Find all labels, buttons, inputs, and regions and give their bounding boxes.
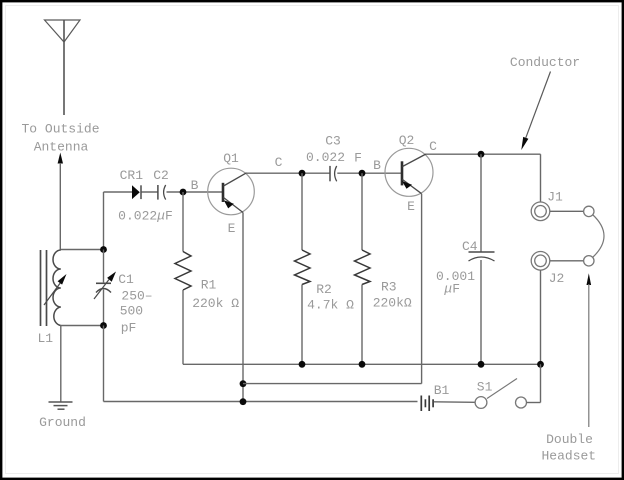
wire C4 column lower <box>480 260 482 364</box>
svg-text:4.7k Ω: 4.7k Ω <box>307 297 354 312</box>
capacitor C3 <box>330 166 337 181</box>
wire R3 column upper <box>361 173 363 250</box>
svg-text:C1: C1 <box>118 272 134 287</box>
svg-text:Double: Double <box>546 432 593 447</box>
wire R2 column upper <box>301 173 303 250</box>
wire tank top rail <box>60 249 103 251</box>
transistor Q2 <box>385 148 433 196</box>
svg-text:250–: 250– <box>121 289 152 304</box>
node R2 bottom <box>299 361 306 368</box>
svg-text:F: F <box>354 150 362 165</box>
wire R1 column lower <box>182 290 184 364</box>
wire J column lower <box>540 270 542 364</box>
svg-text:CR1: CR1 <box>120 168 144 183</box>
wire C4 column upper <box>480 154 482 252</box>
svg-text:0.022μF: 0.022μF <box>118 208 173 223</box>
resistor R3 <box>355 250 371 285</box>
wire R2 column lower <box>301 285 303 365</box>
svg-text:To Outside: To Outside <box>21 121 99 136</box>
diode CR1 <box>132 185 141 199</box>
battery B1 <box>421 396 433 412</box>
wire battery to switch <box>434 401 475 404</box>
svg-text:S1: S1 <box>477 379 493 394</box>
wire collector row Q2 <box>426 153 541 155</box>
jack J2 <box>531 251 550 270</box>
wire C1 lower stub <box>103 290 105 326</box>
label Double Headset <box>541 432 596 463</box>
headset cord arc <box>593 215 605 258</box>
resistor R1 <box>175 252 191 291</box>
node rail1 right end <box>537 361 544 368</box>
ground <box>49 402 73 409</box>
svg-text:pF: pF <box>121 321 137 336</box>
label To Outside Antenna <box>21 121 99 154</box>
wire rail1 <box>183 363 541 365</box>
wire J column upper <box>540 154 542 202</box>
J2 plug circle <box>584 256 594 266</box>
svg-text:500: 500 <box>120 304 143 319</box>
wire tank bottom rail <box>61 325 104 327</box>
svg-text:Conductor: Conductor <box>510 55 580 70</box>
svg-text:E: E <box>228 221 236 236</box>
wire Q2 emitter column <box>421 194 423 384</box>
wire C1 upper stub <box>103 250 105 284</box>
node C4 top <box>478 151 485 158</box>
jack J1 <box>531 202 550 221</box>
J1 plug circle <box>584 206 594 216</box>
svg-text:C4: C4 <box>462 239 478 254</box>
svg-text:0.022: 0.022 <box>306 150 345 165</box>
svg-text:R3: R3 <box>381 279 397 294</box>
svg-text:Ground: Ground <box>39 415 86 430</box>
capacitor C4 <box>469 252 495 261</box>
node R2 top <box>299 170 306 177</box>
headset arrow <box>587 273 592 427</box>
svg-text:C3: C3 <box>325 133 341 148</box>
wire R1 column upper <box>182 192 184 252</box>
node F <box>359 170 366 177</box>
node bottom of tank <box>100 322 107 329</box>
wire J2 link <box>550 260 584 262</box>
svg-text:Q1: Q1 <box>223 151 239 166</box>
wire diode row left <box>104 191 133 193</box>
svg-text:Headset: Headset <box>541 449 596 464</box>
svg-text:R2: R2 <box>316 282 332 297</box>
svg-text:B1: B1 <box>434 383 450 398</box>
svg-text:E: E <box>407 199 415 214</box>
svg-text:Antenna: Antenna <box>34 139 89 154</box>
antenna <box>45 20 81 115</box>
inductor L1 <box>41 250 67 326</box>
node bottom rail junction <box>240 398 247 405</box>
svg-text:220kΩ: 220kΩ <box>373 296 412 311</box>
svg-text:B: B <box>191 178 199 193</box>
svg-text:Q2: Q2 <box>399 133 415 148</box>
capacitor C2 <box>158 185 166 200</box>
wire C2 to Q1 base <box>167 191 223 193</box>
svg-text:C: C <box>275 155 283 170</box>
svg-text:B: B <box>373 158 381 173</box>
conductor arrow <box>521 72 550 151</box>
svg-text:220k Ω: 220k Ω <box>192 296 239 311</box>
resistor R2 <box>295 250 311 285</box>
wire switch to right column <box>527 364 541 402</box>
node emitter rail junction <box>240 380 247 387</box>
svg-text:C2: C2 <box>153 168 169 183</box>
svg-text:L1: L1 <box>37 331 53 346</box>
wire C1 column to diode row <box>103 192 105 250</box>
svg-text:C: C <box>429 139 437 154</box>
svg-text:μF: μF <box>443 281 460 296</box>
capacitor C1 (variable) <box>94 272 116 300</box>
wire C3 to Q2 base <box>337 172 401 174</box>
transistor Q1 <box>208 168 255 215</box>
node C4 bottom <box>478 361 485 368</box>
switch S1 <box>475 379 526 409</box>
wire J1 link <box>550 210 584 212</box>
wire ground lead <box>60 326 62 402</box>
antenna lead arrow <box>58 153 63 251</box>
svg-text:J2: J2 <box>549 271 565 286</box>
wire CR1 to C2 <box>142 191 158 193</box>
wire R3 column lower <box>361 285 363 365</box>
label C1 value <box>118 272 152 336</box>
wire Q1 emitter column <box>242 213 244 402</box>
wire rail2 emitters <box>243 383 422 385</box>
svg-text:R1: R1 <box>201 277 217 292</box>
wire collector row Q1 <box>246 172 330 174</box>
svg-text:J1: J1 <box>547 189 563 204</box>
label C4 value <box>436 269 475 296</box>
node B (base Q1) <box>180 189 187 196</box>
node top of tank <box>100 246 107 253</box>
node R3 bottom <box>359 361 366 368</box>
wire bottom left column <box>104 326 418 402</box>
